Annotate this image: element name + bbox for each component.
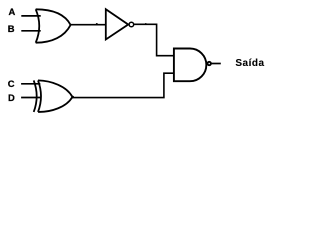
wire inverter output to nand top input — [134, 24, 174, 55]
wire input A — [21, 15, 40, 17]
junction dot at xor output tip — [72, 96, 74, 98]
wire or-output to inverter input — [71, 24, 106, 26]
junction dot on wire — [96, 23, 98, 25]
wire nand output — [211, 63, 221, 65]
input label B — [8, 23, 15, 34]
input label A — [9, 6, 16, 17]
xor-gate U3 — [34, 80, 73, 112]
not-gate (inverter) U2 triangle — [106, 9, 128, 39]
input label C — [8, 78, 15, 89]
nand-gate output bubble — [208, 62, 211, 65]
wire input D — [21, 97, 40, 99]
or-gate U1 — [36, 9, 71, 42]
wire xor output to nand bottom input — [72, 73, 173, 97]
junction dot on wire — [145, 23, 147, 25]
wire input C — [21, 83, 40, 85]
output label Saída — [235, 58, 264, 69]
not-gate output bubble — [129, 22, 134, 27]
wire input B — [21, 30, 40, 32]
input label D — [8, 92, 15, 103]
nand-gate U4 body — [174, 49, 206, 82]
